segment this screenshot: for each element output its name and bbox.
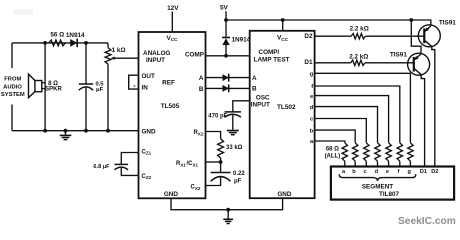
wire segment f net: [315, 86, 400, 143]
svg-text:g: g: [310, 72, 314, 78]
svg-text:0.22: 0.22: [233, 171, 245, 177]
svg-text:B: B: [199, 86, 204, 93]
potentiometer 1 kilohm: [105, 43, 111, 131]
pin c TIL807: [364, 169, 367, 175]
wire: [14, 9, 33, 15]
resistor 2.2 kilohm D1: [315, 60, 414, 65]
value label 0.22 uF: [233, 171, 245, 184]
wire COMP net: [206, 55, 250, 57]
value label 33 kilohm: [226, 145, 243, 151]
wire segment d net: [315, 107, 378, 143]
svg-text:AUDIO: AUDIO: [3, 84, 22, 90]
junction: [64, 129, 68, 133]
pin d TIL807: [375, 169, 379, 175]
pin ANALOG INPUT: [143, 50, 171, 64]
capacitor 0.5 uF: [79, 43, 93, 131]
node audio-in top wire: [12, 42, 108, 44]
svg-text:1 kΩ: 1 kΩ: [112, 47, 126, 54]
junction: [281, 18, 285, 22]
transistor Q2 TIS91: [408, 53, 430, 75]
wire Q2 collector to D1: [421, 75, 424, 167]
svg-text:INPUT: INPUT: [251, 102, 270, 109]
wire Q1 collector to D2: [432, 46, 435, 166]
pin A U2: [252, 75, 257, 82]
value label 68 ohm ALL: [325, 146, 341, 159]
wire: [11, 105, 13, 131]
junction: [106, 129, 110, 133]
svg-text:470 pF: 470 pF: [208, 114, 227, 120]
resistor 56 ohm: [49, 40, 66, 46]
value label TIS91 Q2: [390, 52, 407, 59]
wire VCC U2 lead: [282, 20, 284, 31]
wire net A: [206, 77, 250, 79]
svg-text:TL505: TL505: [161, 103, 180, 110]
wire RX1/CX1 net: [206, 161, 221, 163]
capacitor 470 pF: [225, 101, 250, 130]
value label 56 ohm: [50, 32, 64, 39]
capacitor 6.8 uF: [115, 153, 139, 176]
wire 5V lead: [225, 11, 227, 37]
value label 1N914: [66, 32, 85, 39]
junction: [219, 160, 223, 164]
svg-text:A: A: [199, 75, 204, 82]
value label TL502: [277, 104, 296, 111]
svg-text:μF: μF: [96, 87, 104, 93]
svg-text:COMP/: COMP/: [259, 49, 280, 56]
pin a TIL807: [342, 169, 346, 175]
svg-text:FROM: FROM: [4, 77, 21, 83]
node GND bottom rail: [12, 130, 139, 132]
resistor 33 kilohm: [206, 132, 224, 163]
svg-text:GND: GND: [277, 191, 292, 198]
svg-text:COMP: COMP: [185, 52, 205, 59]
power 12V: [167, 5, 179, 12]
wire segment c net: [315, 119, 367, 143]
pin GND U1 bottom: [164, 191, 179, 198]
svg-text:SYSTEM: SYSTEM: [1, 92, 25, 98]
svg-text:TIL807: TIL807: [379, 191, 400, 198]
resistor 68 ohm c: [364, 143, 369, 167]
wire: [44, 43, 46, 131]
junction: [224, 54, 228, 58]
svg-text:SEGMENT: SEGMENT: [362, 184, 393, 191]
pin a U2: [310, 139, 314, 145]
svg-text:D2: D2: [431, 169, 438, 175]
svg-text:IN: IN: [142, 85, 149, 92]
svg-text:SeekIC.com: SeekIC.com: [398, 216, 456, 227]
svg-text:B: B: [252, 86, 257, 93]
pin OUT: [142, 73, 156, 80]
pin VCC U1: [167, 35, 179, 42]
value label 0.5 uF: [95, 82, 104, 93]
pin D2 U2: [304, 33, 313, 40]
wire segment g net: [315, 73, 411, 143]
node SEGMENT brace: [339, 174, 416, 181]
wire Q1 emitter to 5V: [411, 20, 431, 26]
svg-text:CX2: CX2: [191, 184, 201, 190]
wire: [398, 216, 456, 227]
ground: [223, 210, 233, 224]
pin GND U2: [277, 191, 292, 198]
capacitor 0.22 uF: [206, 162, 231, 186]
pin f U2: [311, 84, 313, 90]
junction: [409, 18, 413, 22]
svg-text:TL502: TL502: [277, 104, 296, 111]
pin e U2: [310, 94, 314, 100]
pin e TIL807: [386, 169, 389, 175]
node SEGMENT label: [362, 184, 393, 191]
pin f TIL807: [398, 169, 400, 175]
value label 2.2 kilohm: [350, 26, 369, 33]
pin d U2: [310, 105, 314, 111]
junction: [43, 129, 47, 133]
pin IN: [142, 85, 149, 92]
svg-text:GND: GND: [164, 191, 179, 198]
ground: [227, 131, 239, 135]
pin B U1: [199, 86, 204, 93]
svg-text:56 Ω: 56 Ω: [50, 32, 64, 39]
svg-text:g: g: [407, 169, 411, 175]
value label TIS91 Q1: [439, 20, 456, 27]
resistor 68 ohm b: [353, 143, 358, 167]
wire: [11, 43, 13, 68]
wire segment e net: [315, 96, 389, 143]
pin CZ2: [142, 174, 152, 180]
junction: [43, 41, 47, 45]
svg-text:(ALL): (ALL): [325, 154, 341, 160]
svg-text:OSC: OSC: [256, 95, 270, 102]
value label 1 kilohm: [112, 47, 126, 54]
resistor 68 ohm g: [408, 143, 413, 167]
pin b U2: [310, 128, 314, 134]
svg-text:LAMP TEST: LAMP TEST: [254, 57, 290, 64]
diode series B: [223, 85, 229, 93]
pin RX2: [194, 130, 204, 136]
svg-text:CZ2: CZ2: [142, 174, 152, 180]
diode series A: [223, 74, 229, 82]
pin COMP U1: [185, 52, 205, 59]
svg-text:OUT: OUT: [142, 73, 156, 80]
svg-text:e: e: [386, 169, 389, 175]
power rail 5V: [226, 19, 411, 21]
pin D1 U2: [304, 59, 313, 66]
svg-text:CZ1: CZ1: [142, 149, 152, 155]
pin OSC INPUT: [251, 95, 270, 109]
svg-text:SPKR: SPKR: [45, 86, 62, 92]
diode 1N914 to COMP: [222, 38, 230, 46]
svg-text:GND: GND: [142, 129, 157, 136]
node FROM AUDIO SYSTEM: [1, 77, 25, 98]
wire U1 ground: [171, 198, 283, 210]
svg-text:REF: REF: [162, 80, 175, 87]
diode 1N914 series: [70, 39, 77, 48]
pin D2 TIL807: [431, 169, 438, 175]
svg-text:INPUT: INPUT: [146, 57, 165, 64]
value label 8 ohm SPKR: [45, 81, 62, 92]
svg-text:1N914: 1N914: [232, 36, 251, 43]
wire OUT-IN feedback loop: [129, 75, 139, 89]
svg-text:TIS91: TIS91: [390, 52, 407, 59]
svg-text:f: f: [398, 169, 400, 175]
value label 1N914: [232, 36, 251, 43]
svg-text:/CX1: /CX1: [187, 161, 199, 167]
svg-text:D1: D1: [420, 169, 427, 175]
value label 6.8 uF: [93, 164, 110, 170]
pin g TIL807: [407, 169, 411, 175]
value label TIL807: [379, 191, 400, 198]
ground: [60, 131, 72, 140]
junction: [226, 208, 230, 212]
svg-text:1N914: 1N914: [66, 32, 85, 39]
svg-text:A: A: [252, 75, 257, 82]
svg-text:c: c: [364, 169, 367, 175]
pin c U2: [310, 117, 314, 123]
resistor 68 ohm a: [342, 143, 347, 167]
pin A U1: [199, 75, 204, 82]
svg-text:33 kΩ: 33 kΩ: [226, 145, 243, 151]
svg-text:TIS91: TIS91: [439, 20, 456, 27]
svg-text:68 Ω: 68 Ω: [326, 146, 339, 152]
power 5V: [220, 4, 229, 11]
resistor 68 ohm e: [386, 143, 391, 167]
svg-text:6.8 μF: 6.8 μF: [93, 164, 110, 170]
pin GND U1 left: [142, 129, 157, 136]
op-amp U1 TL505 body: [139, 32, 206, 198]
wire net B: [206, 87, 250, 89]
svg-text:d: d: [310, 105, 314, 111]
value label 470 pF: [208, 114, 227, 120]
pin RX1/CX1: [176, 161, 199, 167]
transistor Q1 TIS91: [418, 25, 440, 47]
pin CZ1: [142, 149, 152, 155]
wire: [225, 45, 227, 56]
wire pot wiper to analog input: [111, 57, 139, 60]
svg-text:μF: μF: [234, 178, 242, 184]
svg-text:5V: 5V: [220, 4, 229, 11]
svg-text:b: b: [310, 128, 314, 134]
resistor 2.2 kilohm D2: [315, 34, 425, 39]
resistor 68 ohm d: [375, 143, 380, 167]
svg-text:2.2 kΩ: 2.2 kΩ: [350, 26, 369, 33]
pin COMP/LAMP TEST: [254, 49, 290, 63]
resistor 68 ohm f: [397, 143, 402, 167]
pin VCC U2: [277, 35, 289, 42]
wire segment a net: [315, 141, 345, 143]
svg-text:RX2: RX2: [194, 130, 204, 136]
svg-text:12V: 12V: [167, 5, 179, 12]
svg-text:b: b: [352, 169, 356, 175]
value label 2.2 kilohm: [349, 54, 368, 61]
pin b TIL807: [352, 169, 356, 175]
pin g U2: [310, 72, 314, 78]
svg-text:RX1: RX1: [176, 161, 186, 167]
svg-text:D1: D1: [304, 59, 313, 66]
wire segment b net: [315, 130, 356, 143]
speaker SPKR 8-ohm: [29, 74, 46, 98]
op-amp U2 TL502 body: [250, 31, 315, 198]
svg-text:2.2 kΩ: 2.2 kΩ: [349, 54, 368, 61]
pin D1 TIL807: [420, 169, 427, 175]
wire 12V lead: [171, 12, 173, 33]
value label TL505: [161, 103, 180, 110]
svg-text:d: d: [375, 169, 379, 175]
svg-text:D2: D2: [304, 33, 313, 40]
wire Q2 emitter to 5V: [411, 20, 421, 54]
pin CX2: [191, 184, 201, 190]
svg-text:f: f: [311, 84, 313, 90]
junction: [84, 41, 88, 45]
display TIL807 body: [331, 167, 454, 200]
junction: [224, 18, 228, 22]
junction: [84, 129, 88, 133]
pin REF: [162, 80, 175, 87]
pin B U2: [252, 86, 257, 93]
